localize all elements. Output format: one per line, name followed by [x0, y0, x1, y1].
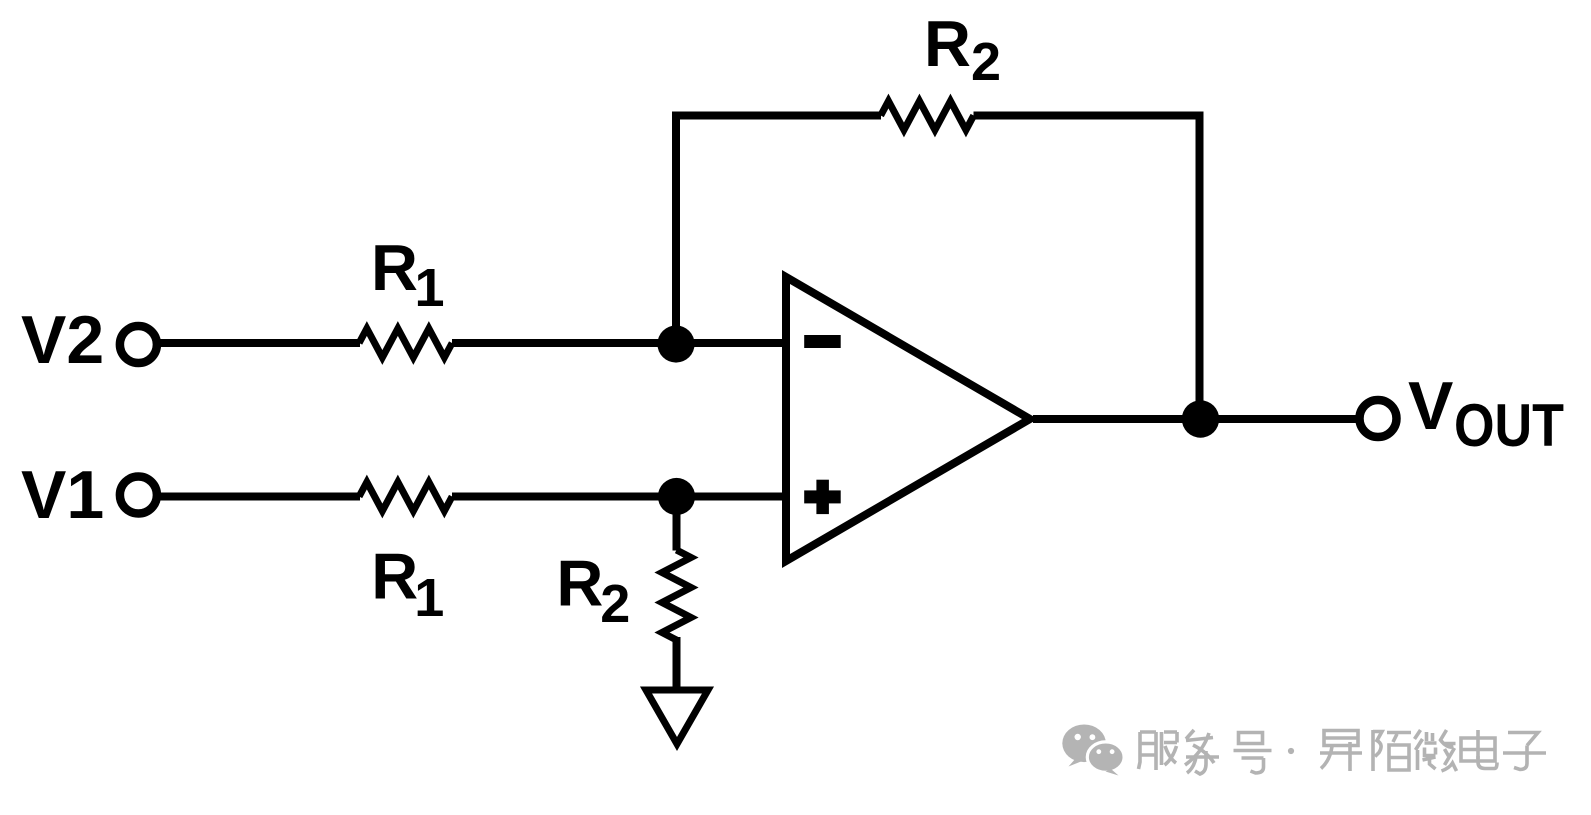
wire junction down to R2	[673, 497, 681, 551]
svg-text:R: R	[924, 7, 971, 80]
node VOUT terminal	[1360, 400, 1397, 437]
wire feedback vertical left	[672, 112, 680, 345]
svg-text:R: R	[556, 546, 603, 619]
wire R1 to inverting input	[452, 339, 790, 347]
resistor R2 (feedback)	[881, 101, 974, 130]
resistor R1 (bottom, V1 branch)	[359, 482, 452, 511]
op-amp minus pin symbol	[804, 335, 841, 348]
wire R1 to non-inverting input	[452, 493, 790, 501]
svg-text:OUT: OUT	[1454, 392, 1564, 459]
node junction non-inverting input	[658, 478, 695, 515]
char 电	[1461, 730, 1497, 769]
op-amp plus pin symbol	[804, 480, 841, 514]
svg-text:V2: V2	[21, 302, 104, 378]
node junction inverting input	[657, 325, 694, 362]
svg-text:2: 2	[971, 32, 1001, 92]
ground	[646, 690, 708, 744]
wire V2 terminal to R1	[160, 339, 360, 347]
wire V1 terminal to R1	[160, 493, 360, 501]
svg-text:1: 1	[415, 258, 445, 318]
node V2 input terminal	[120, 326, 157, 363]
label R1 (top)	[371, 231, 445, 318]
resistor R2 (ground leg, vertical)	[662, 550, 691, 640]
char 服	[1139, 732, 1178, 770]
label R1 (bottom)	[371, 540, 444, 629]
node V1 input terminal	[120, 477, 157, 514]
svg-text:R: R	[371, 540, 418, 613]
svg-text:1: 1	[414, 568, 444, 628]
char 昇	[1320, 731, 1362, 772]
resistor R1 (top, V2 branch)	[359, 329, 452, 358]
svg-text:R: R	[371, 231, 418, 304]
wire feedback top left	[672, 112, 881, 120]
watermark text 服务号 · 昇陌微电子 (drawn strokes)	[1139, 730, 1547, 774]
char 号	[1234, 733, 1272, 774]
wire op-amp output	[1033, 415, 1358, 423]
char 微	[1415, 730, 1457, 771]
node junction output	[1182, 400, 1219, 437]
wire R2 to ground	[673, 637, 681, 691]
label R2 (feedback)	[924, 7, 1001, 92]
watermark wechat logo	[1062, 725, 1106, 767]
wire feedback top right	[974, 112, 1204, 120]
char 务	[1185, 730, 1219, 774]
middle dot	[1288, 748, 1294, 754]
svg-text:2: 2	[600, 574, 630, 634]
label VOUT	[1408, 368, 1564, 459]
op-amp U1	[786, 277, 1030, 561]
char 陌	[1373, 730, 1411, 771]
label R2 (ground leg)	[556, 546, 630, 634]
wire feedback vertical right	[1196, 112, 1204, 420]
svg-text:V1: V1	[21, 457, 104, 533]
svg-text:V: V	[1408, 368, 1453, 444]
char 子	[1503, 733, 1546, 770]
